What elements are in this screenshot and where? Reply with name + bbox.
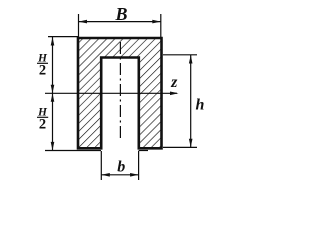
svg-text:2: 2 — [39, 116, 46, 132]
svg-text:B: B — [114, 4, 127, 24]
svg-text:2: 2 — [39, 62, 46, 78]
svg-text:b: b — [117, 159, 125, 176]
svg-text:h: h — [196, 96, 205, 113]
svg-text:z: z — [170, 74, 178, 91]
